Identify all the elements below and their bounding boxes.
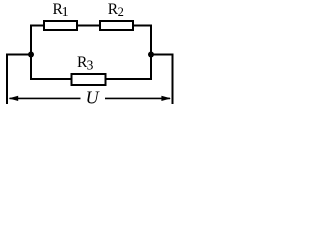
svg-text:3: 3 bbox=[87, 57, 94, 72]
svg-text:1: 1 bbox=[62, 5, 69, 20]
svg-text:U: U bbox=[86, 88, 100, 108]
svg-text:2: 2 bbox=[118, 5, 124, 19]
